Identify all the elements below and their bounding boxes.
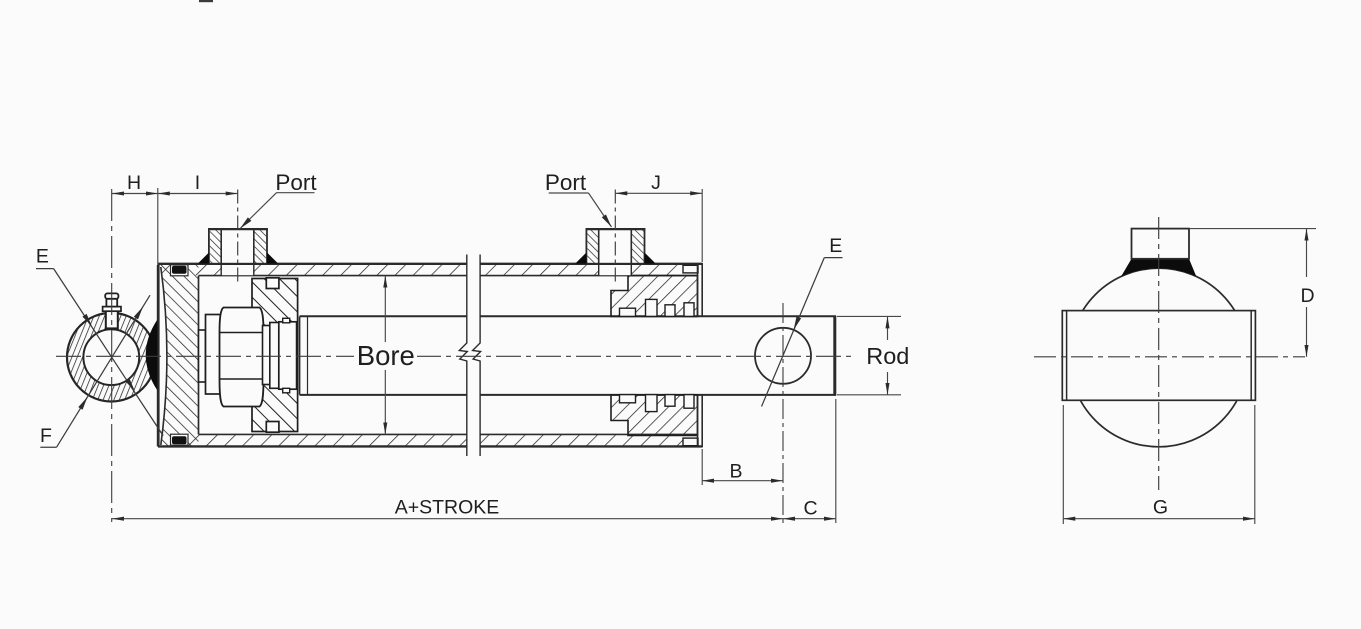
rod right end face [833,316,836,396]
cylinder tube bottom wall hatch [159,435,467,446]
break line right [473,255,481,457]
piston nut [220,308,264,407]
rod eye outer circle [67,313,156,402]
svg-text:C: C [803,498,817,520]
piston washer [206,315,221,395]
cap o-ring bottom [172,436,187,444]
rod chamfer line [307,316,309,394]
gland upper retainer at tube end [683,265,698,273]
svg-text:B: B [729,461,742,483]
tube inner bottom line [199,433,467,435]
dimension G [1063,518,1255,520]
leader E (right) diagonal [762,258,825,407]
port 1 bore channel through tube wall [222,265,253,275]
end view port block [1132,229,1190,259]
tube outer bottom line [158,445,467,447]
leader F (left) shelf [40,446,56,448]
grease fitting shank [106,311,118,329]
Rod dimension extensions [837,315,901,317]
end view body circle [1069,268,1248,447]
port 2 centerline [614,190,616,284]
grease fitting collar [103,307,121,312]
end cap (cap plate) hatch [160,265,199,447]
rod bottom line [300,394,467,396]
end cap left edge [157,265,160,447]
main horizontal centerline [56,355,852,357]
piston spacer [263,326,270,385]
dimension Bore arrows [384,276,386,342]
rod end hole vertical centerline [782,303,784,523]
svg-text:F: F [40,425,52,447]
port 2 top edge [586,228,646,230]
port 1 weld left [198,253,209,264]
tube end face lines [697,264,699,317]
dimension H [112,193,158,195]
cap o-ring top [172,266,187,274]
port 2 wall hatch right [631,230,643,263]
grease fitting cap [105,293,118,298]
end view horizontal centerline [1034,356,1305,358]
rod left face [299,316,301,394]
top edge artifact [199,0,213,2]
cap o-ring groove bottom [171,434,189,445]
port 1 leader shelf [277,192,315,194]
dimension A+STROKE [112,518,783,520]
port 1 weld right [267,253,278,264]
gland upper seal grooves [620,308,636,316]
cap o-ring groove top [171,265,189,276]
dimension J [615,192,702,194]
rod bushing disc [279,322,297,389]
end cap right face [198,276,200,435]
port 1 leader [240,193,277,229]
rod bushing tab bottom [283,388,290,393]
rod top line [300,315,467,317]
svg-text:G: G [1153,497,1168,519]
rod shoulder sleeve [270,323,279,389]
H extension right (cap face) [157,188,159,265]
weld fillet between eye and cap (black crescent) [146,320,158,391]
end view weld bowtie [1121,259,1196,277]
dimension I [158,193,238,195]
port 2 leader shelf [549,192,589,194]
svg-text:Port: Port [545,170,587,195]
gland lower seal grooves [620,395,636,403]
dimension B [702,480,783,482]
leader E (left) diagonal [54,269,163,436]
port 2 wall hatch left [587,230,598,263]
cylinder tube top wall hatch [159,265,467,276]
rod eye inner circle [83,329,139,385]
rod eye hatched ring [67,313,156,402]
piston hatched block [252,279,298,432]
port 1 centerline [237,190,239,284]
port 2 leader [589,193,612,227]
rod bushing tab top [283,318,290,323]
svg-text:Rod: Rod [866,343,909,369]
svg-text:E: E [36,246,49,268]
dimension C [783,518,836,520]
dimension Rod [887,316,889,340]
port 1 wall hatch right [254,230,266,263]
svg-text:A+STROKE: A+STROKE [395,497,500,519]
piston nut facet lines [220,332,264,334]
dimension D [1306,229,1308,277]
piston rod body [300,316,835,394]
port 1 wall hatch left [210,230,221,263]
eye vertical centerline [111,189,113,522]
piston retainer ring [199,330,206,382]
end cap domed face curve [161,267,167,445]
gland upper hatched block [611,276,698,317]
leader F (left) diagonal [57,295,151,447]
tube outer top line [158,263,467,265]
end view cross tube [1062,311,1255,401]
tube inner top line [199,275,467,277]
port 2 bore channel through tube wall [599,265,630,275]
leader E (left) shelf [36,268,54,270]
break gap white [468,250,479,460]
rod eye outer white disc [67,313,156,402]
break line left [459,255,467,457]
rod end pin hole [755,328,811,384]
end cap domed inner face white crescent [158,267,167,445]
B extension left [701,449,703,485]
G extensions [1062,405,1064,524]
piston seal groove top [266,278,279,289]
gland lower retainer at tube end [683,438,698,446]
svg-text:H: H [127,172,141,194]
piston seal groove bottom [266,422,279,433]
port 2 body [586,229,644,264]
port 2 weld left [575,253,586,264]
port 2 weld right [645,253,656,264]
D extension (port top) [1190,228,1316,230]
svg-text:J: J [651,172,661,194]
gland lower hatched block [611,395,698,436]
port 1 top edge [208,228,268,230]
port 1 body [209,229,267,264]
svg-text:E: E [829,235,842,257]
end view vertical centerline [1158,217,1160,490]
grease fitting neck [106,299,117,307]
svg-text:Bore: Bore [357,340,415,371]
port 1 inner wall lines [220,229,222,264]
cross tube inner edge lines [1066,311,1068,401]
port 2 inner wall lines [598,229,600,264]
svg-text:D: D [1300,285,1314,307]
svg-text:I: I [195,172,200,194]
label Bore [354,342,417,369]
C extension right (rod end) [835,399,837,523]
leader E (right) shelf [824,257,842,259]
J extension right (tube end) [701,189,703,262]
svg-text:Port: Port [275,170,317,195]
